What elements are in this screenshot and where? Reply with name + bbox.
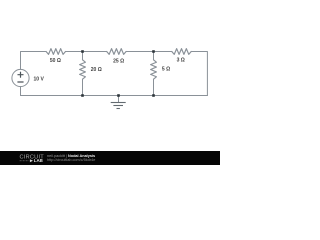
ground bar 2 (113, 105, 123, 107)
resistor R4 20ohm zigzag (80, 60, 86, 79)
svg-text:25 Ω: 25 Ω (113, 58, 124, 64)
wire top middle segment (66, 51, 107, 53)
svg-text:LAB: LAB (34, 158, 43, 163)
wire top-right corner and right rail (191, 52, 207, 96)
resistor R4 20ohm vertical: top lead (82, 52, 84, 60)
wire source bottom lead (20, 87, 22, 96)
voltage source V1 circle (12, 69, 29, 86)
voltage source V1 plus sign (18, 74, 23, 76)
wire top-left segment (21, 52, 47, 70)
svg-text:10 V: 10 V (34, 76, 45, 82)
resistor R5 bottom lead (153, 79, 155, 95)
ground stub (118, 96, 120, 103)
CircuitLab logo triangle (30, 159, 33, 162)
wire bottom rail (21, 95, 208, 97)
svg-text:5 Ω: 5 Ω (162, 66, 170, 72)
footer black bar (0, 151, 220, 165)
resistor R5 5ohm vertical: top lead (153, 52, 155, 60)
wire node B to R3 (126, 51, 172, 53)
resistor R3 3ohm zigzag (172, 49, 191, 55)
ground bar 1 (111, 102, 126, 104)
voltage source V1 minus sign (18, 81, 23, 83)
node A junction dot (top, 50-20-25) (81, 50, 84, 53)
resistor R1 50ohm zigzag (46, 49, 65, 55)
resistor R4 bottom lead (82, 79, 84, 95)
svg-text:3 Ω: 3 Ω (177, 58, 185, 64)
CircuitLab logo wire glyph (20, 160, 30, 162)
junction dot bottom at 20ohm (81, 94, 84, 97)
svg-text:http://circuitlab.com/c/5kdr4e: http://circuitlab.com/c/5kdr4e (47, 158, 95, 162)
junction dot bottom at 5ohm (152, 94, 155, 97)
svg-text:20 Ω: 20 Ω (91, 67, 102, 73)
node B junction dot (top, 25-5-3) (152, 50, 155, 53)
resistor R5 5ohm zigzag (151, 60, 157, 79)
ground bar 3 (117, 108, 120, 110)
junction dot bottom at ground (117, 94, 120, 97)
svg-text:50 Ω: 50 Ω (50, 58, 61, 64)
resistor R2 25ohm zigzag (107, 49, 126, 55)
